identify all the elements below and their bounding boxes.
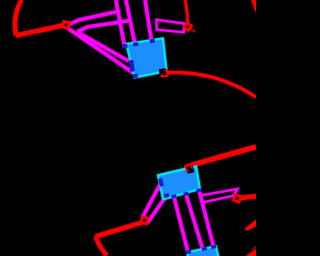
pin P1.5 (bottom-left corner) xyxy=(133,74,139,79)
trace T5 (outer chevron lower arm, via V1 to pad P1 left pin) xyxy=(68,28,135,74)
pin P2.3 xyxy=(196,188,202,192)
board arc A5 (red pie arc around via V3) xyxy=(96,237,107,256)
red arc fragment A6 (right edge stub) xyxy=(245,220,257,231)
pad P3 (blue pad at bottom edge, cyan outline) xyxy=(187,246,218,256)
trace T11 (vertical pad P2 pin to pad P3) xyxy=(199,189,214,246)
pad P1 (blue pad, cyan outline) xyxy=(127,39,167,78)
pin P2.1 xyxy=(171,194,177,198)
pin P1.4 (left edge) xyxy=(129,60,135,72)
red arc fragment A7 (bottom-right corner wedge) xyxy=(246,249,256,256)
pin P2.4 (left edge) xyxy=(158,178,164,187)
trace T3 (vertical to pad P1 pin 3) xyxy=(145,0,152,41)
trace T10 (vertical pad P2 pin to pad P3) xyxy=(186,194,203,248)
red line L3 from pad P2 to right edge xyxy=(191,147,256,165)
via V2 (red rotated square pad) xyxy=(184,23,192,31)
trace loop T14 (thin magenta loop from T11 to via V4) xyxy=(201,189,238,203)
board arc A1 (red pie arc around via V1) xyxy=(15,0,21,36)
trace T2 (vertical to pad P1 pin 2) xyxy=(126,0,135,44)
pin P3.1 xyxy=(186,250,192,254)
red radius line L2 from arc corner to via V3 xyxy=(95,222,142,236)
trace T9 (vertical pad P2 pin to pad P3) xyxy=(174,197,188,253)
pad P2 notch (black square with red via outline) xyxy=(186,165,194,173)
pin P1.2 xyxy=(133,42,139,46)
trace T1 (vertical to pad P1 pin 1) xyxy=(116,0,125,46)
via V1 (red square pad with hole) xyxy=(63,21,70,28)
trace T7 (inner chevron lower arm to pad P1 corner pin) xyxy=(77,32,128,61)
trace T4 (outer chevron upper arm, via V1 to T1 junction) xyxy=(69,12,117,25)
pin P3.3 xyxy=(211,245,217,249)
red radius line L1 from arc corner to via V1 xyxy=(16,26,63,36)
trace T12 (pad P2 left pin to via V3) xyxy=(142,183,160,218)
board arc A4 fragment (red wedge top-right corner) xyxy=(252,0,257,13)
trace T6 (inner chevron upper arm to T2 junction) xyxy=(77,21,130,32)
dim red arc continuation below via V2 xyxy=(189,29,195,32)
pin P1.1 xyxy=(122,44,128,48)
pin P2.2 xyxy=(183,192,189,196)
board arc A2 (thin red arc from top edge down to via V2) xyxy=(185,0,188,25)
pad P2 (blue pad, cyan outline) xyxy=(158,166,200,199)
trace T13 (pad P2 corner pin to via V3) xyxy=(148,195,167,222)
red line L4 from via V4 to right edge xyxy=(240,196,256,198)
trace loop T8 (thin magenta loop from T3 to via V2) xyxy=(156,20,184,33)
via V4 (red square pad with hole) xyxy=(233,195,241,203)
via V3 (red square pad with hole) xyxy=(141,217,148,224)
pin P2.5 (corner) xyxy=(164,193,170,198)
pin P3.2 xyxy=(202,247,208,251)
pin P1.3 xyxy=(150,39,156,43)
board arc A3 (big red arc from pad P1 to right edge) xyxy=(167,73,256,98)
pad P1 notch (black square with red via outline) xyxy=(159,68,167,76)
